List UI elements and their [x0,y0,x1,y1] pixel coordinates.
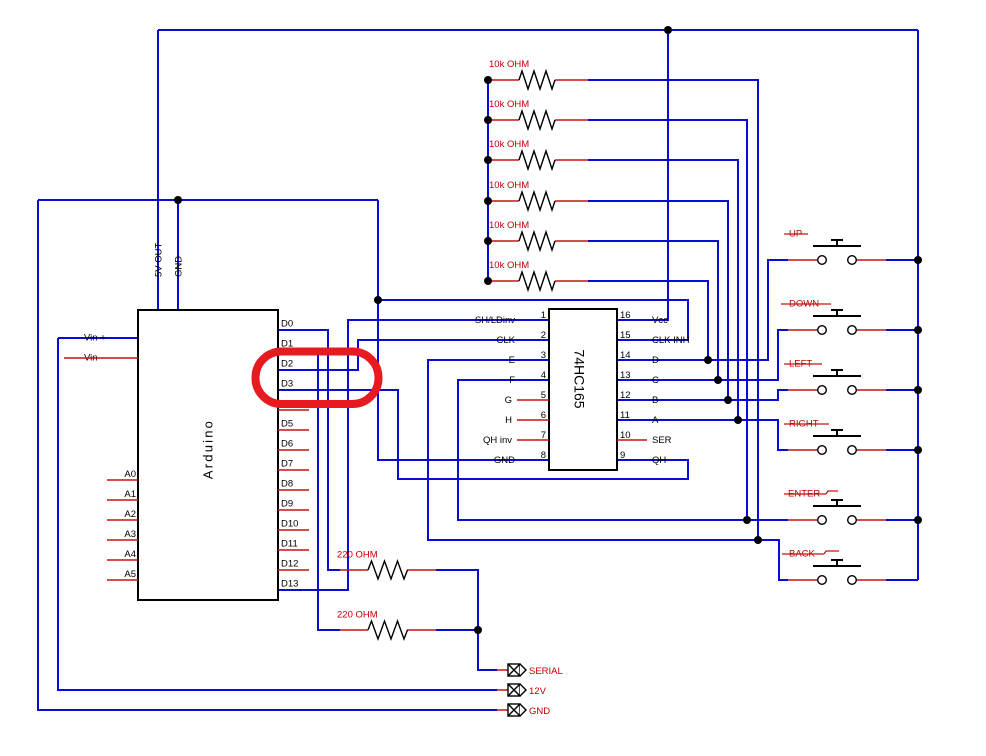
svg-text:D11: D11 [281,539,298,550]
red highlight oval around D2 D3 [256,352,379,405]
svg-text:D13: D13 [281,579,298,590]
svg-text:13: 13 [620,370,631,381]
svg-text:D5: D5 [281,419,293,430]
svg-text:A2: A2 [124,509,136,520]
connector 12V [497,684,547,697]
svg-text:10k OHM: 10k OHM [489,220,529,231]
wire net C pin13 to DOWN button [617,330,788,380]
wire net F pin4 to ENTER button [458,380,788,520]
node serial junction [474,626,482,634]
svg-text:D6: D6 [281,439,293,450]
wire net A pin11 to RIGHT button [617,420,788,450]
wire Vin+ stub [58,337,138,339]
svg-text:220 OHM: 220 OHM [337,550,378,561]
svg-text:A0: A0 [124,469,136,480]
svg-text:GND: GND [529,706,550,717]
svg-text:CLK: CLK [497,335,516,346]
svg-text:D10: D10 [281,519,298,530]
wire LEFT button right lead [886,389,918,391]
wire 12V rail from connector to Vin+ [58,338,497,690]
wire ENTER button right lead [886,519,918,521]
node +5V ENTER [914,516,922,524]
svg-text:SER: SER [652,435,672,446]
wire D0 to 220 ohm resistor R7 [278,330,340,570]
wire D1 to 220 ohm resistor R8 [278,350,340,630]
svg-text:GND: GND [174,256,185,277]
svg-text:QH: QH [652,455,666,466]
node R4 rail [484,197,492,205]
svg-text:8: 8 [541,450,546,461]
node +5V RIGHT [914,446,922,454]
node net E BACK [754,536,762,544]
wire GND branch to CLK INH pin15 [378,300,688,340]
wire D2 to CLK pin2 [278,340,549,370]
node Vcc top rail junction [664,26,672,34]
svg-text:F: F [509,375,515,386]
svg-text:Vin +: Vin + [84,333,106,344]
svg-text:74HC165: 74HC165 [572,349,588,408]
wire +5V top rail [158,29,918,31]
wire RIGHT button right lead [886,449,918,451]
node net A [734,416,742,424]
pushbutton BACK [782,549,886,585]
svg-text:Vcc: Vcc [652,315,668,326]
wire UP button right lead [886,259,918,261]
wire R6 right to net D [588,281,708,360]
wire GND top horizontal [38,199,378,201]
svg-text:1: 1 [541,310,546,321]
svg-text:QH inv: QH inv [483,435,512,446]
pushbutton RIGHT [784,419,886,455]
svg-text:D2: D2 [281,359,293,370]
wire R1 right to net E [588,80,758,540]
wire net B pin12 to LEFT button [617,390,788,400]
wire R2 right to net F [588,120,747,520]
svg-text:A4: A4 [124,549,136,560]
shift register U1 body [549,309,617,470]
pushbutton DOWN [781,299,886,335]
svg-text:A: A [652,415,659,426]
node net C [714,376,722,384]
node +5V UP [914,256,922,264]
wire DOWN button right lead [886,329,918,331]
pushbutton LEFT [784,359,886,395]
svg-text:SH/LDinv: SH/LDinv [475,315,515,326]
wire GND vertical x378 to chip pin8 [378,200,549,460]
svg-text:2: 2 [541,330,546,341]
svg-text:15: 15 [620,330,631,341]
wire 5V OUT riser [157,30,159,310]
node +5V LEFT [914,386,922,394]
node R5 rail [484,237,492,245]
svg-text:D: D [652,355,659,366]
svg-text:D8: D8 [281,479,293,490]
svg-text:220 OHM: 220 OHM [337,610,378,621]
wire Arduino GND pin riser [177,200,179,310]
svg-text:11: 11 [620,410,630,421]
node net F ENTER [743,516,751,524]
svg-text:10k OHM: 10k OHM [489,59,529,70]
wire R3 right to net A [588,160,738,420]
node +5V DOWN [914,326,922,334]
wire BACK button right lead [886,579,918,581]
svg-text:CLK INH: CLK INH [652,335,690,346]
node GND pin junction [174,196,182,204]
connector GND [497,704,550,717]
svg-text:C: C [652,375,659,386]
svg-text:12V: 12V [529,686,547,697]
svg-text:D9: D9 [281,499,293,510]
node R3 rail [484,156,492,164]
svg-text:H: H [505,415,512,426]
svg-text:14: 14 [620,350,631,361]
node R2 rail [484,116,492,124]
wire D13 to SH/LD pin1 [278,320,549,590]
svg-text:A5: A5 [124,569,136,580]
svg-text:12: 12 [620,390,631,401]
wire Vcc pin16 riser [617,30,668,320]
svg-text:A1: A1 [124,489,136,500]
svg-text:B: B [652,395,658,406]
wire R7 right to SERIAL riser [436,570,497,670]
svg-text:16: 16 [620,310,631,321]
svg-text:4: 4 [541,370,546,381]
svg-text:E: E [509,355,515,366]
svg-text:D7: D7 [281,459,293,470]
pushbutton ENTER [784,489,886,525]
node R6 rail [484,277,492,285]
pushbutton UP [784,229,886,265]
svg-text:10k OHM: 10k OHM [489,139,529,150]
svg-text:SERIAL: SERIAL [529,666,563,677]
connector SERIAL [497,664,563,677]
svg-text:10k OHM: 10k OHM [489,260,529,271]
wire GND left rail down to GND connector [38,200,497,710]
Arduino U2 body [138,310,278,600]
node GND/CLKINH junction [374,296,382,304]
svg-text:D0: D0 [281,319,293,330]
wire R8 right to SERIAL riser junction [436,629,478,631]
wire net E pin3 to BACK button [428,360,788,580]
svg-text:10k OHM: 10k OHM [489,99,529,110]
svg-text:5V OUT: 5V OUT [154,242,165,277]
node R1 rail [484,76,492,84]
wire net D pin14 to UP button [617,260,788,360]
node net D [704,356,712,364]
svg-text:9: 9 [620,450,625,461]
svg-text:A3: A3 [124,529,136,540]
svg-text:GND: GND [494,455,515,466]
svg-text:D3: D3 [281,379,293,390]
wire D3 to QH pin9 [278,390,688,479]
svg-text:Arduino: Arduino [201,419,216,479]
svg-text:3: 3 [541,350,546,361]
wire R4 right to net B [588,201,728,400]
wire resistor common rail [487,80,489,281]
wire R5 right to net C [588,241,718,380]
node net B [724,396,732,404]
svg-text:D12: D12 [281,559,298,570]
svg-text:10k OHM: 10k OHM [489,180,529,191]
wire +5V right rail to buttons [917,30,919,580]
svg-text:G: G [505,395,512,406]
